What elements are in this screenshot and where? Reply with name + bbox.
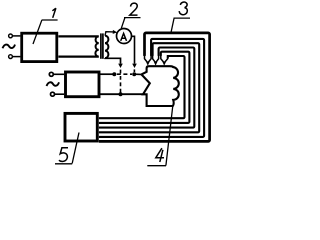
winding 3 line 2 [99,39,204,137]
label 4 digit [156,148,164,162]
leader line label 1 [33,20,58,44]
hook loop pair 1 above coil [145,55,152,62]
leader line label 2 [121,18,140,29]
leader line label 4 [147,107,172,166]
terminal circle top of middle box [49,72,53,76]
wire secondary bottom lead [105,58,121,64]
hook loop pair 3 above coil [161,55,168,62]
wire terminal to block 1 top [12,35,20,37]
terminal circle top of block 1 [9,34,13,38]
dashed wire segment [117,73,132,75]
block 1 (generator box) [22,33,57,61]
wire middle box top output [100,73,114,75]
terminal circle bottom of block 1 [9,55,13,59]
AC tilde at middle box [47,82,60,86]
label 3 digit [179,2,187,15]
wire middle box bottom output to coil [100,93,144,95]
junction dot 1 [112,72,116,76]
wire terminal to middle box top [53,73,64,75]
transformer T primary winding [95,36,98,56]
wire ammeter out, corner down [132,36,135,63]
label 5 digit [59,148,68,162]
wire terminal to block 1 bottom [12,56,20,58]
label 1 digit [52,8,56,18]
winding 3 line 4 [99,48,194,128]
wire block1 to transformer bottom [58,55,98,57]
dashed stub to junction dot 2 [133,69,135,72]
arrow down on secondary branch [118,64,123,68]
winding 3 line 5 [99,52,189,123]
winding 3 line 1 outermost [99,33,210,141]
hook loop pair 2 above coil [153,55,159,62]
wire secondary top to ammeter with arrow [105,32,114,36]
winding 3 line 3 [99,43,199,132]
terminal circle bottom of middle box [51,92,55,96]
leader line label 5 [55,133,79,164]
ammeter letter A [121,33,127,41]
block 5 (multichannel box) [65,113,97,141]
dashed vertical link v1 [120,70,122,93]
block 2 (middle source box) [66,72,100,97]
transformer T secondary winding [105,36,108,59]
coil 4 body [141,66,178,106]
leader line label 3 [171,18,190,32]
arrow down on ammeter branch [132,64,137,68]
ammeter (2) circle [117,29,132,44]
junction dot on bottom wire [119,92,123,96]
wire dot2 to coil apex [134,73,141,75]
AC tilde at block 1 [3,45,16,49]
winding 3 line 6 innermost [99,56,185,118]
label 2 digit [130,3,138,15]
transformer T core [100,33,102,58]
junction dot 2 [132,72,136,76]
wire block1 to transformer top [58,35,98,37]
wire terminal to middle box bottom [55,93,65,95]
